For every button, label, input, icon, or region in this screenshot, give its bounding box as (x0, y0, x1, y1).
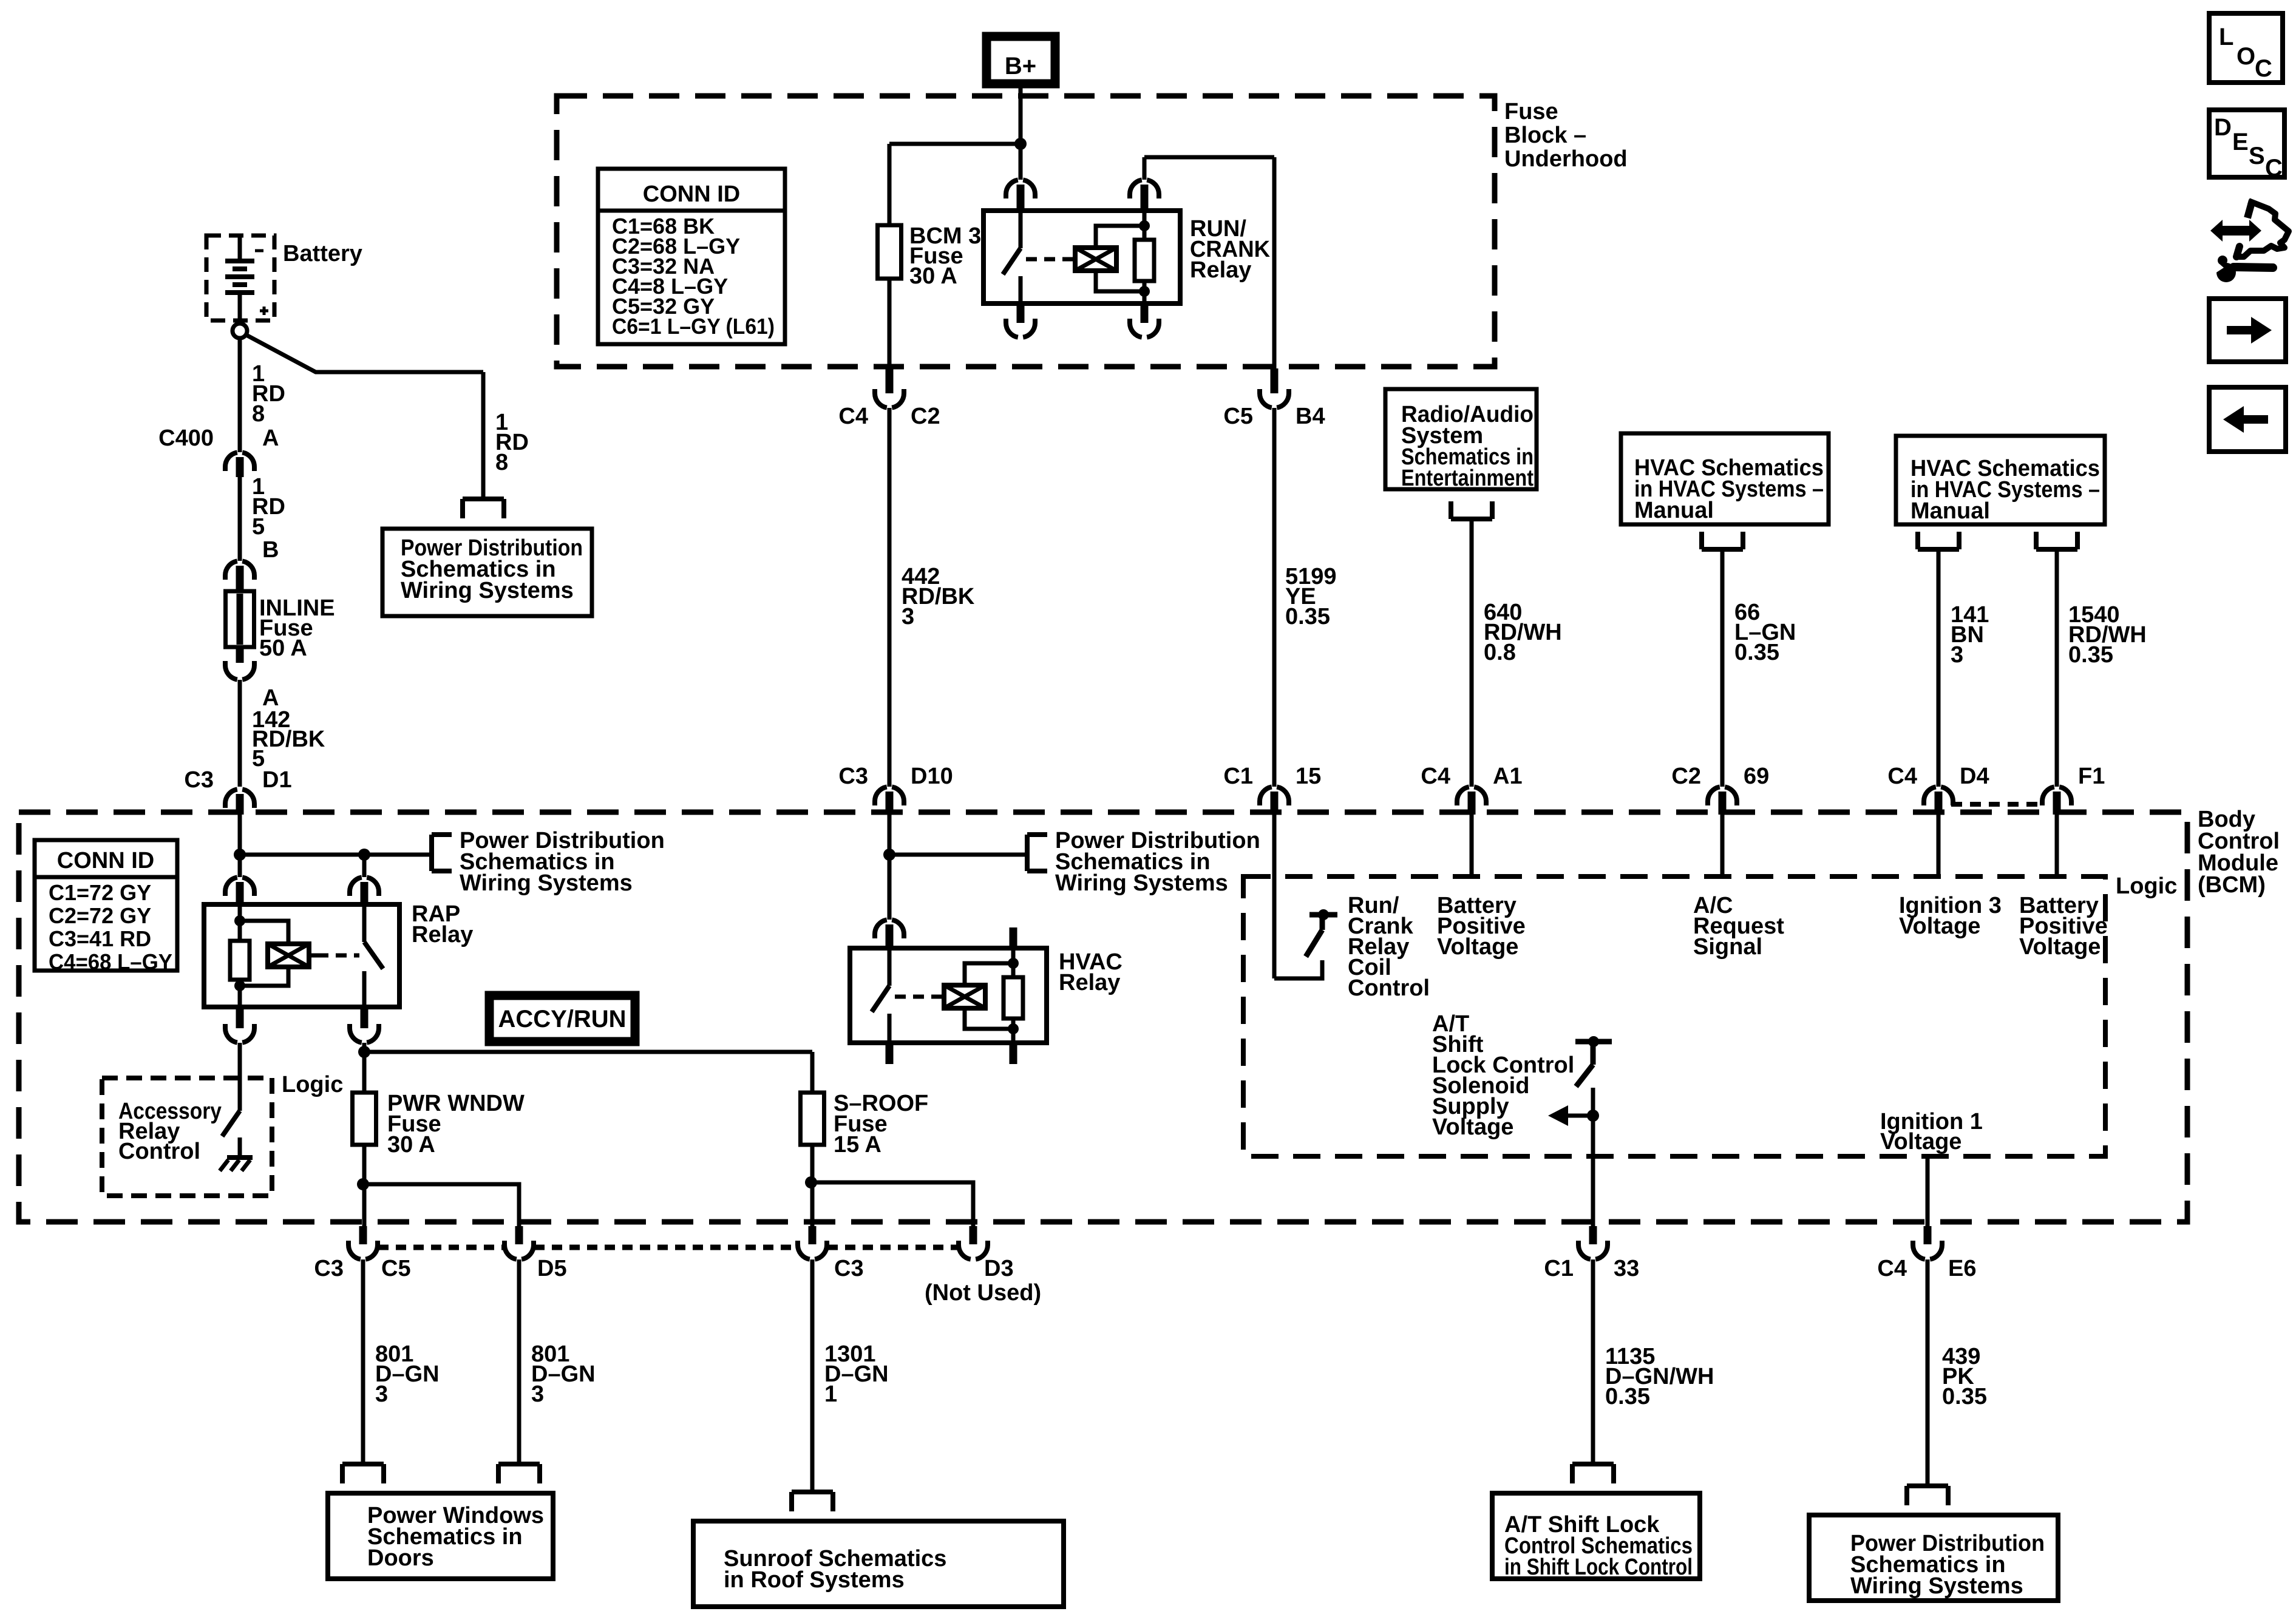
svg-text:D3: D3 (984, 1256, 1014, 1281)
svg-text:3: 3 (902, 604, 914, 629)
svg-text:1: 1 (824, 1381, 837, 1407)
svg-text:A: A (262, 425, 279, 451)
svg-text:C2: C2 (911, 404, 940, 429)
svg-text:D4: D4 (1960, 764, 1989, 789)
svg-text:B4: B4 (1296, 404, 1325, 429)
svg-text:in Roof Systems: in Roof Systems (724, 1567, 905, 1593)
svg-text:Wiring Systems: Wiring Systems (460, 870, 633, 896)
svg-text:D10: D10 (911, 764, 953, 789)
svg-text:Voltage: Voltage (1437, 934, 1518, 960)
svg-text:30 A: 30 A (909, 263, 957, 289)
svg-text:F1: F1 (2078, 764, 2105, 789)
svg-text:Underhood: Underhood (1504, 146, 1628, 172)
svg-text:C: C (2255, 55, 2272, 82)
svg-text:D: D (2214, 114, 2232, 141)
svg-text:C: C (2265, 155, 2283, 181)
svg-text:Voltage: Voltage (1432, 1114, 1513, 1140)
svg-text:C4: C4 (838, 404, 868, 429)
svg-text:Voltage: Voltage (2019, 934, 2101, 960)
svg-text:ACCY/RUN: ACCY/RUN (498, 1006, 626, 1032)
svg-text:C6=1 L–GY (L61): C6=1 L–GY (L61) (612, 314, 775, 339)
svg-text:C3: C3 (838, 764, 868, 789)
svg-text:Relay: Relay (1059, 970, 1120, 995)
svg-text:Battery: Battery (283, 241, 362, 266)
svg-text:5: 5 (252, 514, 265, 540)
svg-text:Signal: Signal (1693, 934, 1762, 960)
svg-text:C2=72 GY: C2=72 GY (49, 903, 151, 928)
svg-text:0.35: 0.35 (1285, 604, 1330, 629)
svg-text:Logic: Logic (2116, 873, 2177, 899)
svg-text:C2: C2 (1671, 764, 1701, 789)
svg-text:3: 3 (375, 1381, 388, 1407)
svg-text:E6: E6 (1948, 1256, 1976, 1281)
svg-text:E: E (2232, 129, 2249, 155)
svg-text:50 A: 50 A (259, 636, 307, 661)
svg-text:C1: C1 (1544, 1256, 1574, 1281)
svg-text:C5: C5 (1223, 404, 1253, 429)
svg-text:Manual: Manual (1911, 498, 1990, 524)
svg-text:B+: B+ (1005, 53, 1036, 80)
svg-text:Control: Control (118, 1139, 200, 1164)
svg-text:15 A: 15 A (834, 1132, 881, 1158)
svg-text:Voltage: Voltage (1899, 914, 1980, 939)
svg-text:C4: C4 (1887, 764, 1917, 789)
svg-text:Manual: Manual (1634, 498, 1714, 523)
svg-text:8: 8 (252, 401, 265, 427)
svg-text:Fuse: Fuse (1504, 99, 1558, 124)
svg-text:C1: C1 (1223, 764, 1253, 789)
svg-text:A1: A1 (1493, 764, 1523, 789)
svg-text:(Not Used): (Not Used) (925, 1280, 1041, 1306)
svg-text:3: 3 (531, 1381, 544, 1407)
svg-text:C3: C3 (314, 1256, 344, 1281)
svg-text:S: S (2249, 143, 2265, 169)
svg-text:33: 33 (1614, 1256, 1639, 1281)
svg-text:Logic: Logic (282, 1072, 343, 1097)
svg-text:15: 15 (1296, 764, 1321, 789)
svg-text:CONN ID: CONN ID (643, 181, 740, 207)
svg-text:in Shift Lock Control: in Shift Lock Control (1504, 1554, 1693, 1580)
svg-text:Block –: Block – (1504, 123, 1586, 148)
svg-text:Relay: Relay (1190, 257, 1251, 283)
svg-text:L: L (2219, 24, 2233, 50)
svg-text:D5: D5 (537, 1256, 567, 1281)
svg-text:30 A: 30 A (387, 1132, 435, 1158)
svg-text:C5: C5 (381, 1256, 411, 1281)
svg-text:(BCM): (BCM) (2198, 872, 2266, 898)
svg-text:Doors: Doors (367, 1545, 434, 1571)
svg-text:C3=41 RD: C3=41 RD (49, 926, 151, 951)
svg-text:C3: C3 (834, 1256, 864, 1281)
svg-text:69: 69 (1744, 764, 1769, 789)
svg-text:3: 3 (1951, 642, 1963, 668)
svg-text:0.35: 0.35 (1605, 1384, 1650, 1409)
svg-text:C4: C4 (1877, 1256, 1907, 1281)
svg-text:Control: Control (1348, 975, 1430, 1001)
svg-text:Entertainment: Entertainment (1401, 466, 1533, 491)
svg-text:O: O (2237, 43, 2255, 70)
svg-text:C400: C400 (158, 425, 214, 451)
svg-text:Relay: Relay (412, 922, 473, 947)
svg-text:0.8: 0.8 (1484, 640, 1516, 665)
svg-text:0.35: 0.35 (1734, 640, 1779, 665)
svg-text:Wiring Systems: Wiring Systems (401, 578, 574, 603)
svg-text:0.35: 0.35 (1942, 1384, 1987, 1409)
svg-text:C4=68 L–GY: C4=68 L–GY (49, 949, 172, 974)
svg-text:CONN ID: CONN ID (57, 848, 154, 873)
svg-text:C3: C3 (184, 767, 214, 793)
svg-text:Wiring Systems: Wiring Systems (1850, 1573, 2023, 1599)
svg-text:Wiring Systems: Wiring Systems (1055, 870, 1228, 896)
svg-text:Voltage: Voltage (1880, 1129, 1961, 1154)
svg-text:C1=72 GY: C1=72 GY (49, 880, 151, 905)
svg-text:C4: C4 (1421, 764, 1450, 789)
svg-text:D1: D1 (262, 767, 292, 793)
svg-text:8: 8 (495, 450, 508, 475)
svg-text:B: B (262, 537, 279, 563)
svg-text:0.35: 0.35 (2068, 642, 2113, 668)
